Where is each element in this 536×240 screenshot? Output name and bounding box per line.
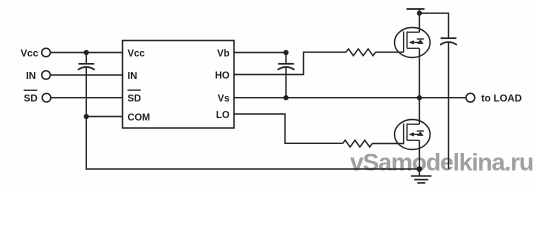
op-amp U1 driver IC body xyxy=(123,41,235,129)
resistor R2 (low-side gate) xyxy=(343,140,373,147)
capacitor C2 bootstrap xyxy=(278,53,295,70)
transistor Q2 low-side MOSFET xyxy=(395,120,431,150)
label SD with overline (input) xyxy=(24,94,38,105)
svg-text:IN: IN xyxy=(128,71,138,82)
wire SD terminal to IC xyxy=(51,97,123,99)
node junction dot Vs / half-bridge output xyxy=(417,95,422,100)
svg-text:Vs: Vs xyxy=(218,94,230,105)
capacitor C1 (Vcc decoupling) xyxy=(78,53,95,70)
svg-text:HO: HO xyxy=(215,70,230,81)
svg-text:to LOAD: to LOAD xyxy=(481,94,522,105)
node junction dot at COM xyxy=(84,114,89,119)
terminal SD xyxy=(42,93,51,102)
wire +bus branch to C3 xyxy=(419,13,448,37)
node junction dot bootstrap bottom on Vs xyxy=(283,95,288,100)
node junction dot Vb/bootstrap top xyxy=(283,50,288,55)
wire LO pin down to low-side gate resistor row xyxy=(234,114,343,143)
wire IN terminal to IC xyxy=(50,74,122,76)
svg-text:Vcc: Vcc xyxy=(21,49,39,60)
resistor R1 (high-side gate) xyxy=(346,49,376,56)
node junction dot on Vcc wire xyxy=(84,50,89,55)
terminal IN xyxy=(42,71,51,80)
wire C2 bottom to Vs node xyxy=(285,67,287,97)
wire Q2 source down to ground rail xyxy=(418,140,420,169)
svg-text:vSamodelkina.ru: vSamodelkina.ru xyxy=(350,150,534,177)
wire Q1 drain to +bus bar xyxy=(418,9,420,32)
wire C1 bottom down to COM node xyxy=(85,67,87,116)
wire R2 to Q2 gate xyxy=(372,143,403,145)
wire R1 to Q1 gate xyxy=(376,51,404,53)
svg-text:Vb: Vb xyxy=(217,48,229,59)
wire Q1 source down to Vs node xyxy=(418,48,420,97)
overline of SD input label xyxy=(24,90,38,91)
power +bus rail bar xyxy=(407,8,425,10)
terminal Vcc xyxy=(42,48,51,57)
svg-text:LO: LO xyxy=(216,110,230,121)
node junction dot on drain feed xyxy=(417,11,422,16)
wire Vcc terminal to IC xyxy=(50,52,122,54)
wire COM node to IC COM pin xyxy=(86,116,122,118)
svg-text:IN: IN xyxy=(26,71,36,82)
terminal to LOAD xyxy=(466,93,475,102)
node junction dot on ground rail xyxy=(417,166,423,172)
svg-text:SD: SD xyxy=(128,94,141,105)
transistor Q1 high-side MOSFET xyxy=(395,28,431,58)
wire Vb pin to bootstrap node xyxy=(234,52,286,54)
svg-text:COM: COM xyxy=(128,112,151,123)
svg-text:SD: SD xyxy=(24,94,38,105)
wire Q2 drain up to Vs node xyxy=(418,98,420,125)
wire COM node down to ground rail xyxy=(86,117,419,170)
wire HO pin up to gate resistor row xyxy=(234,52,346,74)
overline of SD pin label xyxy=(128,90,141,91)
capacitor C3 bus decoupling xyxy=(440,38,457,45)
wire C3 bottom down to ground rail xyxy=(448,43,450,170)
wire Vs pin to load terminal xyxy=(234,97,466,99)
ground symbol xyxy=(411,169,432,183)
svg-text:Vcc: Vcc xyxy=(128,48,146,59)
